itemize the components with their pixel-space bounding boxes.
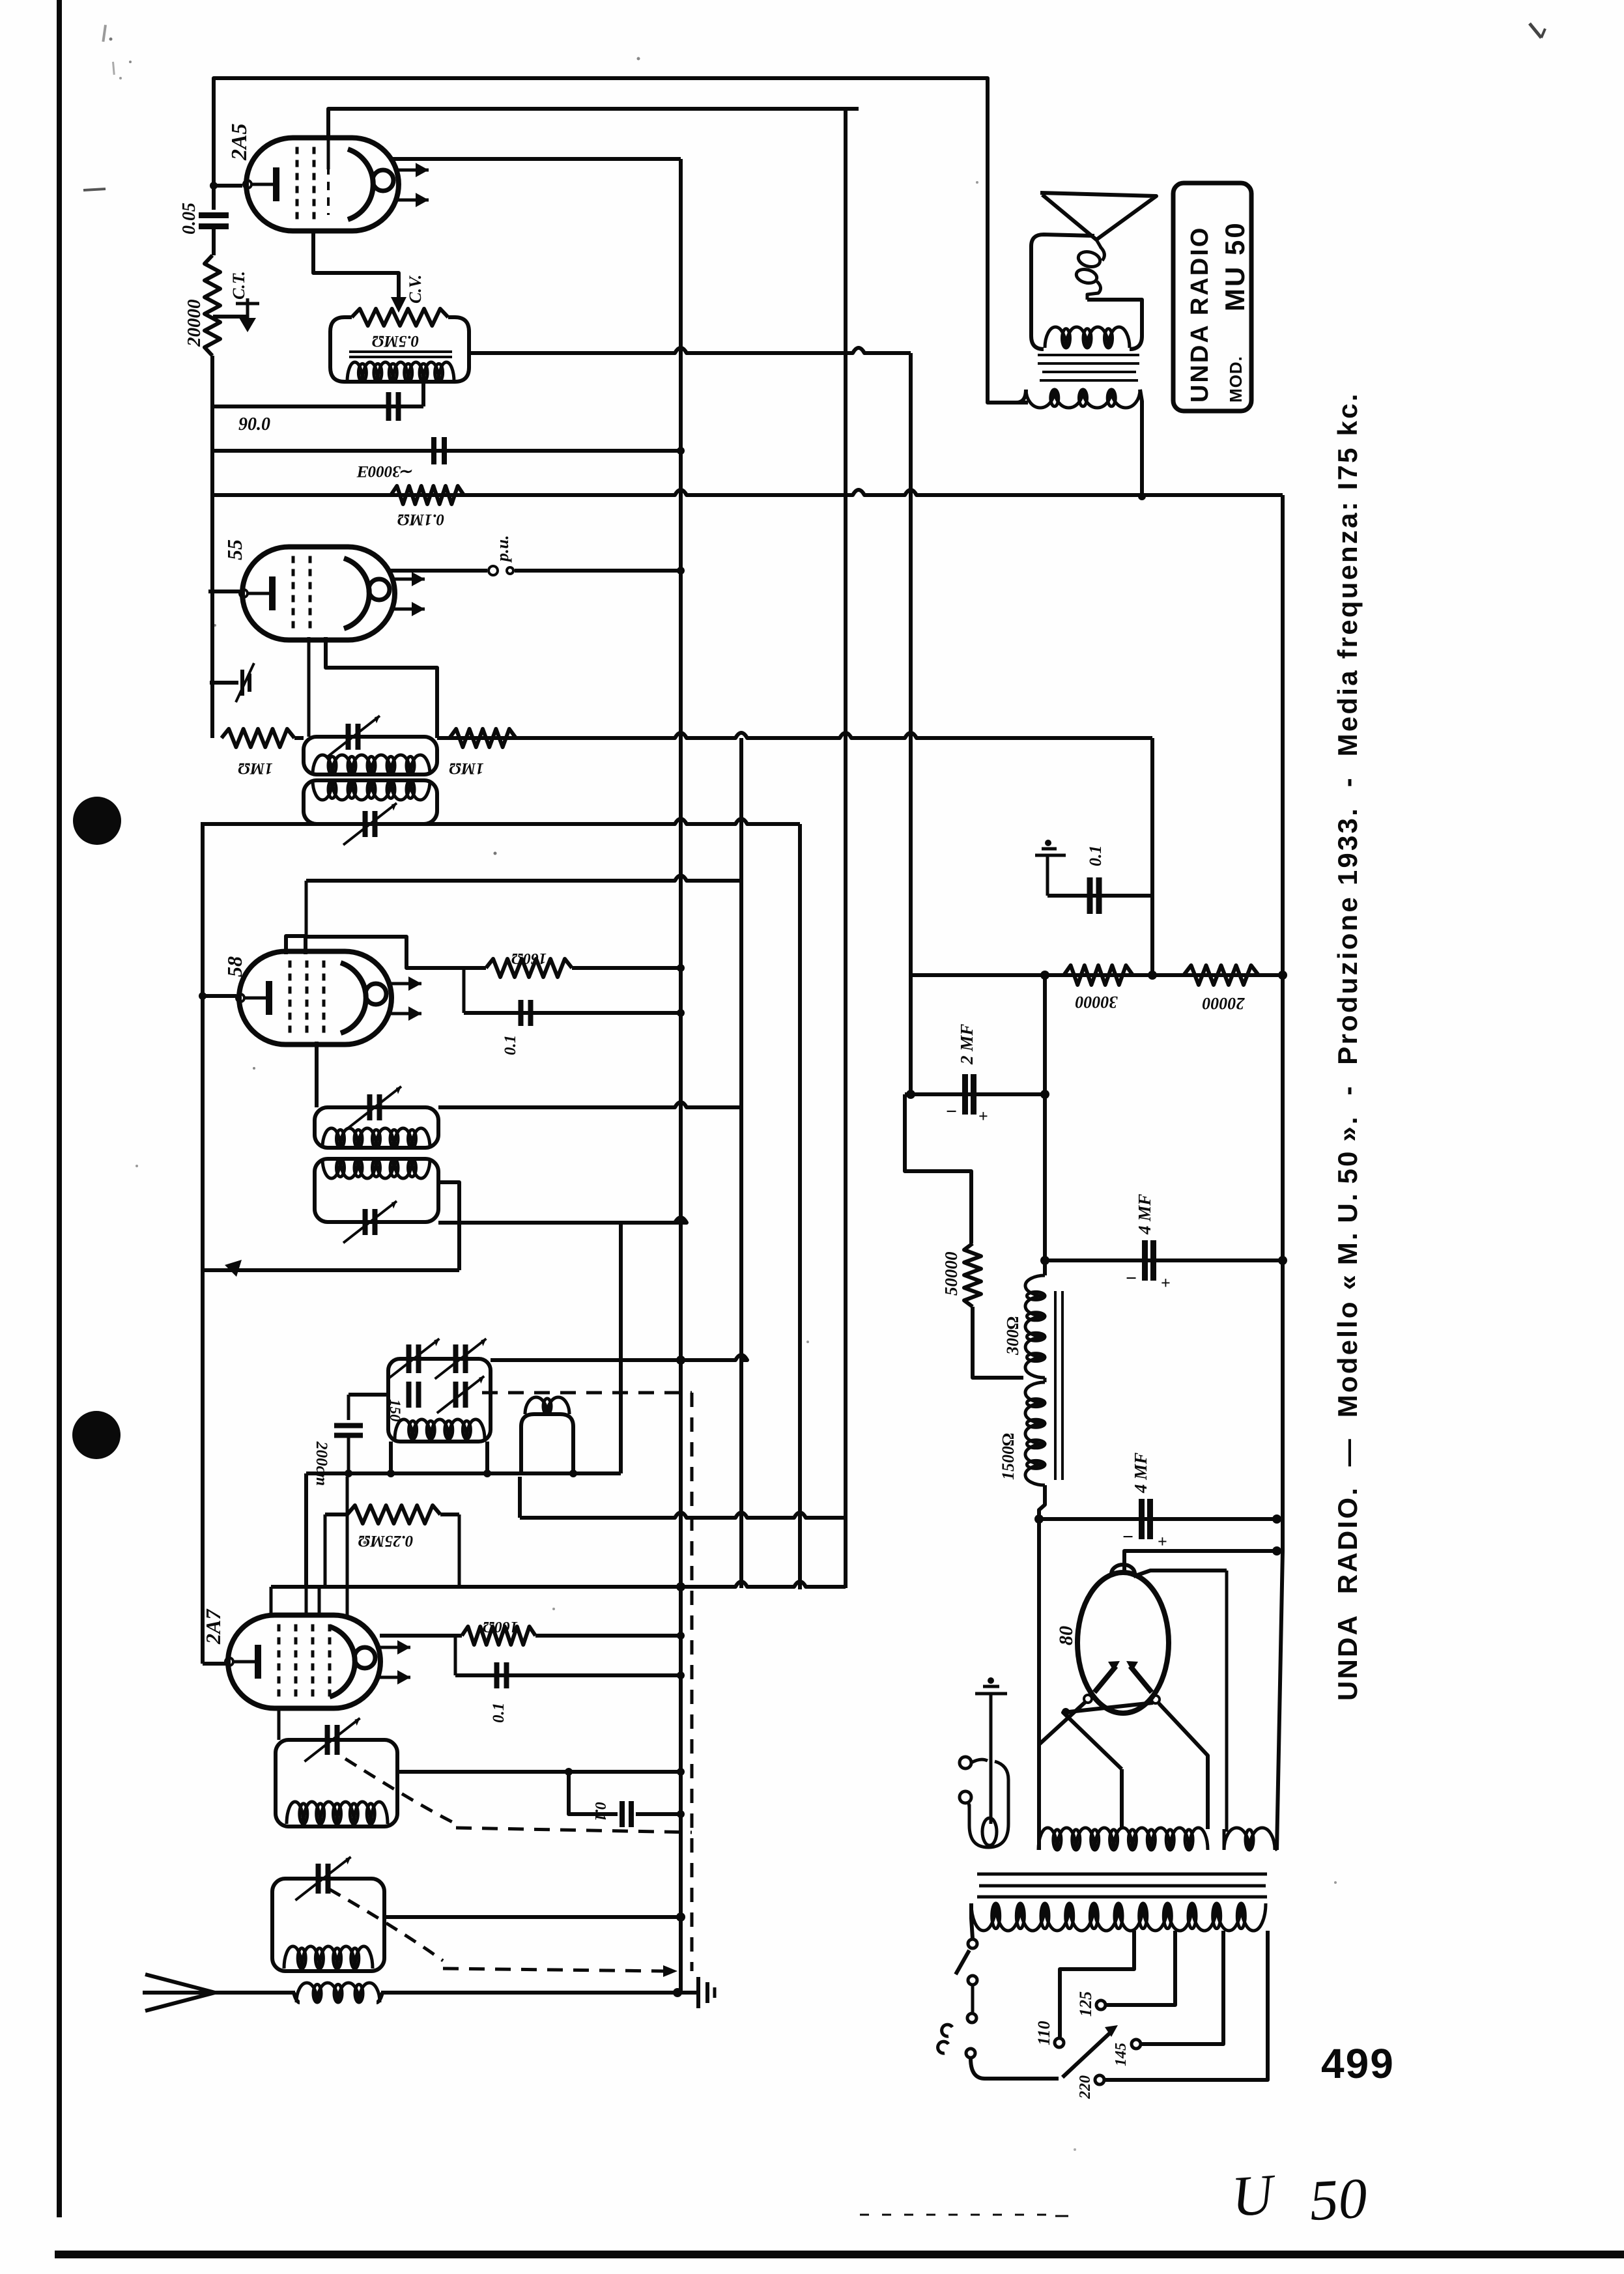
svg-text:−: − <box>1126 1268 1137 1289</box>
tap 125 <box>1096 2000 1105 2010</box>
trimmer cap <box>240 670 244 696</box>
svg-text:4 MF: 4 MF <box>1131 1453 1150 1494</box>
svg-text:p.u.: p.u. <box>493 535 512 563</box>
mains lead <box>971 2058 1059 2079</box>
svg-text:300Ω: 300Ω <box>1003 1316 1022 1356</box>
bus E down <box>909 353 913 1096</box>
svg-text:220: 220 <box>1077 2075 1094 2099</box>
switch blade <box>956 1950 969 1974</box>
node dot sec lead <box>1138 492 1146 500</box>
wire 50000 to tap <box>973 1307 1023 1378</box>
punch hole top <box>73 797 121 845</box>
wire to cap 0.05 <box>212 186 216 210</box>
C.T. ground arrow <box>246 298 249 326</box>
switch contact 3 <box>967 2013 976 2023</box>
cap 2MF wire <box>905 1092 1045 1096</box>
wire res to box <box>294 736 304 740</box>
wire divider <box>911 973 1283 977</box>
cap 4MF 1 <box>1142 1240 1148 1281</box>
IF1 lower coil <box>313 780 430 800</box>
capacitor 0.05 <box>199 212 229 218</box>
resistor 1M right <box>449 729 516 747</box>
gang dash RF2 <box>345 1759 456 1824</box>
IF1 lower box <box>304 780 437 824</box>
HV winding <box>1038 1828 1208 1850</box>
wire drop to W1 <box>619 1223 623 1473</box>
80 top wires <box>1124 1551 1277 1574</box>
node dot pu end <box>677 567 685 575</box>
svg-text:20000: 20000 <box>184 300 205 348</box>
C.V. arrowhead <box>391 297 406 313</box>
cap 0.1 RF2 box <box>569 1772 618 1814</box>
svg-text:+: + <box>1158 1532 1167 1551</box>
svg-text:UNDA RADIO: UNDA RADIO <box>1186 226 1214 403</box>
wire padder left <box>349 1393 388 1397</box>
wire IF2 to busB <box>438 1102 741 1107</box>
fuse link <box>971 1985 975 2013</box>
wire 2MF to 50000 <box>905 1094 971 1244</box>
svg-text:C.T.: C.T. <box>229 271 248 300</box>
wire resistor bottom <box>210 356 214 738</box>
bus left <box>201 822 205 1664</box>
bus C <box>798 824 802 1589</box>
80 right lead <box>1159 1703 1208 1829</box>
svg-text:20000: 20000 <box>1203 994 1246 1013</box>
IF2 lower coil <box>322 1159 430 1178</box>
gang dash padder <box>482 1391 692 1395</box>
tickler box <box>521 1414 573 1473</box>
vert B+ 1604 <box>1043 975 1047 1260</box>
bus dashed gang <box>691 1393 694 1971</box>
cap 200cm <box>347 1395 350 1420</box>
page bottom rule <box>55 2251 1624 2258</box>
switch contact 4 <box>966 2049 975 2058</box>
resistor 160 58 <box>486 959 572 977</box>
resistor 0.5M in box top <box>352 309 448 326</box>
tube 58 <box>239 952 392 1045</box>
svg-text:125: 125 <box>1076 1991 1095 2017</box>
svg-text:1500Ω: 1500Ω <box>999 1433 1018 1480</box>
resistor 0.1M <box>391 486 464 504</box>
label box border <box>1173 183 1251 411</box>
svg-text:UNDA RADIO. — Modello « M.: UNDA RADIO. — Modello « M. U. 50 ». - Pr… <box>1332 391 1363 1701</box>
RF1 varcap <box>316 1864 321 1894</box>
choke bottom lead <box>1039 1485 1045 1519</box>
IF2 lower box <box>315 1159 438 1222</box>
wire2 left drop <box>270 1587 273 1617</box>
tube55 lead k <box>326 637 437 738</box>
IF1 varcap top <box>346 724 351 750</box>
5V left lead <box>1225 1570 1229 1832</box>
padder coil <box>395 1419 485 1439</box>
svg-text:0.1: 0.1 <box>1086 846 1105 867</box>
fono terminal 2 <box>960 1791 971 1803</box>
C.T. tap wire <box>213 315 246 319</box>
svg-text:160Ω: 160Ω <box>483 1618 518 1635</box>
padder box <box>388 1359 491 1442</box>
bus A <box>679 159 683 1993</box>
wire coil out right <box>469 348 911 353</box>
wire 160 to busA <box>572 966 681 970</box>
plug prongs <box>942 2025 952 2036</box>
faint dash bottom <box>860 2214 1049 2216</box>
res 0.25 leads <box>324 1514 327 1587</box>
wire cap to resistor <box>212 227 216 255</box>
80 plate arrows <box>1094 1666 1116 1692</box>
page left border line <box>57 0 62 2217</box>
svg-text:2A7: 2A7 <box>201 1608 225 1645</box>
IF1 upper box <box>304 737 437 775</box>
fono terminal 1 <box>960 1757 971 1769</box>
wire2 2A7 return <box>271 1582 846 1587</box>
wire 4MF2 <box>1039 1517 1277 1521</box>
80 X right <box>1063 1703 1153 1769</box>
wire padder top <box>491 1355 747 1360</box>
svg-text:2 MF: 2 MF <box>957 1024 976 1065</box>
selector blade <box>1062 2032 1111 2077</box>
RF1 coil <box>284 1946 373 1968</box>
resistor 20000 vertical <box>205 255 220 356</box>
cap 0.1 58 <box>463 968 466 1013</box>
tube 80 body <box>1077 1572 1169 1713</box>
svg-text:2A5: 2A5 <box>227 123 251 161</box>
svg-text:0.25MΩ: 0.25MΩ <box>358 1532 413 1550</box>
padder varcap 1 <box>406 1344 412 1373</box>
gang dash RF1 <box>329 1889 443 1961</box>
pu terminal circles <box>489 566 498 575</box>
node dot bus A 692 <box>677 447 685 455</box>
choke 1500 <box>1025 1382 1045 1485</box>
magnet outline <box>1031 235 1142 349</box>
wire 58 cathode <box>315 1042 319 1107</box>
svg-text:55: 55 <box>223 539 246 560</box>
coil core lines <box>349 350 452 353</box>
RF1 box <box>272 1879 384 1971</box>
fono ground sym <box>988 1677 994 1684</box>
osc coil winding <box>347 362 454 382</box>
wire choke top <box>1045 1258 1283 1262</box>
output secondary <box>1026 390 1140 408</box>
wire 0.1M long <box>212 490 1283 495</box>
left bus corner to 2A7 <box>203 1662 227 1666</box>
wire avc <box>203 1268 459 1272</box>
osc tank coil leads <box>389 1442 393 1473</box>
svg-text:0.1MΩ: 0.1MΩ <box>397 511 444 528</box>
svg-text:1MΩ: 1MΩ <box>449 760 484 777</box>
wire IF2 right down <box>438 1182 459 1270</box>
cap 0.1 det <box>1047 894 1152 898</box>
tube 2A5 <box>246 138 399 231</box>
wire IF1 bottom to bus C <box>203 819 800 824</box>
svg-text:0.1: 0.1 <box>502 1035 519 1055</box>
grid top-cap line 2A5 <box>327 138 330 169</box>
5V winding <box>1224 1828 1275 1850</box>
field coil <box>1045 327 1130 348</box>
svg-text:150: 150 <box>387 1399 403 1422</box>
divider dots <box>1040 971 1049 980</box>
choke 300 <box>1025 1275 1045 1378</box>
svg-text:160Ω: 160Ω <box>511 950 547 967</box>
IF2 upper box <box>315 1107 438 1148</box>
choke core <box>1054 1291 1057 1480</box>
svg-text:499: 499 <box>1321 2040 1395 2087</box>
antenna symbol <box>143 1974 215 2011</box>
wire coil tap down <box>421 382 425 406</box>
padder cap 4 <box>453 1382 459 1408</box>
tap 110 <box>1055 2038 1064 2047</box>
svg-text:+: + <box>978 1107 988 1126</box>
80 pin circles <box>1084 1695 1092 1703</box>
wire W1 <box>306 1471 621 1475</box>
padder varcap 2 <box>453 1344 459 1373</box>
tickler coil <box>525 1397 569 1414</box>
node dot 2A5 grid <box>210 182 218 190</box>
tap 220 <box>1095 2075 1104 2084</box>
IF2 upper coil <box>322 1128 430 1148</box>
svg-text:110: 110 <box>1034 2021 1053 2045</box>
primary left lead <box>971 1903 973 1939</box>
IF1 varcap bottom <box>363 811 368 837</box>
tube55 lead g <box>307 637 311 737</box>
svg-text:−: − <box>946 1101 957 1122</box>
resistor 30000 <box>1064 965 1133 985</box>
wire RF1 to busA <box>384 1915 681 1919</box>
svg-text:U: U <box>1230 2163 1279 2229</box>
speaker neck <box>1096 240 1101 248</box>
wire grid-cap rail 2A5 <box>328 109 859 138</box>
tube 80 top bump <box>1111 1565 1135 1574</box>
wire 2A5 cathode down <box>313 231 399 301</box>
svg-text:0.1: 0.1 <box>490 1703 507 1723</box>
80 tap lead <box>1120 1769 1124 1829</box>
2A7 grid leads <box>305 1587 308 1617</box>
svg-text:C.V.: C.V. <box>406 275 425 304</box>
svg-text:4 MF: 4 MF <box>1135 1194 1154 1235</box>
ground symbol right <box>696 1977 700 2008</box>
svg-text:0.05: 0.05 <box>179 203 199 235</box>
svg-text:+: + <box>1161 1273 1171 1292</box>
IF1 upper coil <box>313 755 430 775</box>
tube 2A7 <box>228 1615 380 1709</box>
58 grid cap rect <box>286 936 306 954</box>
svg-text:0.5MΩ: 0.5MΩ <box>372 332 419 350</box>
svg-text:0.1: 0.1 <box>591 1802 608 1821</box>
primary winding <box>971 1903 1266 1931</box>
fono loop <box>982 1818 997 1845</box>
trimmer stub <box>210 681 238 685</box>
resistor 50000 <box>964 1244 981 1307</box>
tube 55 <box>242 547 395 640</box>
IF2 varcap bottom <box>363 1209 368 1235</box>
svg-text:MU 50: MU 50 <box>1219 221 1250 311</box>
svg-text:50000: 50000 <box>941 1251 961 1296</box>
bus F <box>1277 495 1283 1850</box>
IF2 varcap top <box>367 1094 373 1120</box>
svg-text:MOD.: MOD. <box>1226 356 1246 403</box>
wire 1M right <box>437 733 1152 738</box>
wire 90.0 <box>212 405 423 408</box>
xfmr core <box>977 1873 1267 1876</box>
svg-text:−: − <box>1122 1526 1133 1548</box>
switch contact 2 <box>968 1976 977 1985</box>
vert rect left <box>1037 1519 1041 1850</box>
resistor 20000 <box>1184 965 1259 985</box>
wire 58 plate <box>306 937 486 968</box>
antenna coil <box>296 1983 380 2002</box>
resistor 1M left <box>221 729 294 747</box>
svg-text:145: 145 <box>1113 2043 1130 2066</box>
wire RF2 to busA <box>397 1770 681 1774</box>
bus D <box>844 109 848 1518</box>
wire top B+ rail <box>214 78 1028 403</box>
speaker cone <box>1040 193 1156 240</box>
resistor 160 2A7 <box>462 1627 535 1645</box>
resistor 0.25M <box>325 1513 347 1516</box>
det to divider <box>1150 896 1154 975</box>
svg-text:80: 80 <box>1055 1626 1077 1645</box>
choke link <box>1044 1378 1047 1382</box>
RF2 coil <box>287 1802 388 1824</box>
wire 55 grid left <box>208 590 240 593</box>
choke top lead <box>1043 1260 1047 1275</box>
wire IF2 bottom right <box>438 1217 687 1223</box>
wire ground rail <box>208 1991 295 1995</box>
wire 55 plate pu <box>389 569 487 573</box>
RF2 varcap <box>325 1725 330 1755</box>
W1 left drop <box>304 1473 308 1587</box>
svg-text:90.0: 90.0 <box>238 414 270 434</box>
80 X left <box>1038 1702 1085 1745</box>
wire 2A5 plate to bus A <box>391 157 681 161</box>
left rail 55 <box>210 495 214 738</box>
switch contact 1 <box>968 1939 977 1948</box>
capacitor 30000cm <box>431 437 436 464</box>
svg-text:200cm: 200cm <box>313 1441 330 1486</box>
output core <box>1038 354 1139 356</box>
svg-text:50: 50 <box>1308 2167 1369 2233</box>
wire 2A7 cathode down <box>278 1707 281 1740</box>
cap 0.1 2A7 <box>454 1636 457 1675</box>
svg-text:58: 58 <box>223 956 246 977</box>
W1 dots <box>345 1470 352 1477</box>
svg-text:∼3000Ǝ: ∼3000Ǝ <box>356 462 414 480</box>
svg-text:1MΩ: 1MΩ <box>238 760 273 777</box>
wire 58 grid rail <box>306 875 741 881</box>
wire 30000cm <box>212 449 681 453</box>
det drop <box>1150 738 1154 896</box>
tap 160 <box>1132 2039 1141 2049</box>
padder cap 3 <box>406 1382 412 1408</box>
wire 2A7 plate <box>380 1634 462 1638</box>
osc coil box outline <box>330 317 469 382</box>
voice coil <box>1100 247 1104 261</box>
ground det <box>1045 840 1051 846</box>
bus B <box>739 738 743 1588</box>
RF2 box <box>276 1740 397 1826</box>
wire 58 left <box>203 994 236 998</box>
punch hole bottom <box>72 1411 121 1459</box>
wire 160 busA 2A7 <box>535 1634 681 1638</box>
cap 2MF <box>962 1074 968 1115</box>
capacitor 90.0 <box>386 392 392 421</box>
cap 4MF 2 <box>1139 1499 1145 1539</box>
svg-text:30000: 30000 <box>1076 993 1118 1012</box>
wire osc grid top <box>518 1477 522 1518</box>
wire 2A5 grid left <box>214 184 242 188</box>
